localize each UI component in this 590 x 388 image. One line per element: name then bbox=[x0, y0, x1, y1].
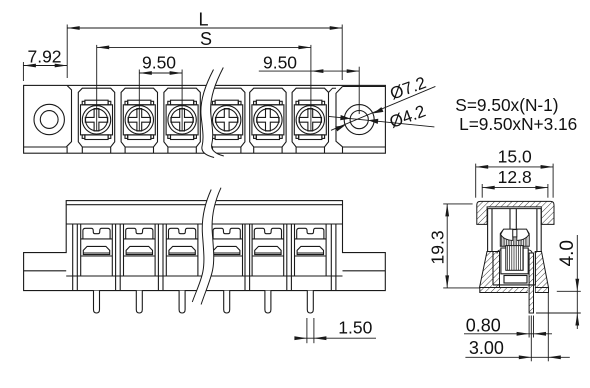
svg-text:Ø7.2: Ø7.2 bbox=[388, 73, 429, 103]
front view: cell window 2 bbox=[124, 224, 156, 276]
front view: cell window 3 bbox=[166, 224, 198, 276]
dimension S bbox=[97, 45, 311, 131]
top view: break lines bbox=[201, 68, 224, 158]
dimension 4.0 bbox=[536, 235, 581, 329]
side view: pin (hatched) bbox=[528, 253, 535, 313]
svg-text:S=9.50x(N-1): S=9.50x(N-1) bbox=[455, 95, 558, 115]
svg-text:15.0: 15.0 bbox=[498, 146, 532, 166]
leader diameter 7.2 bbox=[331, 86, 435, 130]
svg-text:3.00: 3.00 bbox=[469, 338, 504, 358]
dimension 9.50 right bbox=[259, 67, 359, 114]
svg-text:S: S bbox=[200, 29, 212, 49]
top view: terminal cell 2 bbox=[121, 88, 157, 153]
dimension 15.0 bbox=[476, 164, 553, 198]
side view: cap (hatched) bbox=[477, 201, 554, 224]
dimension 19.3 bbox=[443, 204, 480, 288]
side view: lower wedges (hatched) bbox=[480, 252, 549, 293]
top view: terminal cell 1 bbox=[78, 88, 114, 153]
dimension 9.50 left bbox=[139, 70, 182, 132]
front view: pins bbox=[94, 291, 314, 313]
svg-text:12.8: 12.8 bbox=[498, 167, 532, 187]
front view: cell window 1 bbox=[81, 224, 113, 276]
top view: strip outline bbox=[24, 85, 386, 153]
side view: screw head bbox=[500, 229, 529, 246]
front view: partition walls bbox=[73, 224, 336, 291]
top view: groove channel right of cell 6 bbox=[329, 88, 337, 92]
front view: cell window 6 bbox=[295, 224, 327, 276]
front view: break lines bbox=[192, 188, 221, 305]
side view: clamp frame bbox=[497, 248, 532, 274]
side view: screw knurl bbox=[501, 234, 527, 246]
side view: body walls bbox=[488, 209, 542, 252]
dimension 12.8 bbox=[482, 184, 548, 198]
svg-text:1.50: 1.50 bbox=[338, 318, 372, 338]
top view: terminal cell 6 bbox=[292, 88, 328, 153]
svg-text:4.0: 4.0 bbox=[557, 240, 578, 266]
dimension 7.92 bbox=[23, 62, 67, 81]
dimension 1.50 bbox=[296, 318, 377, 343]
top view: terminal cell 3 bbox=[164, 88, 200, 153]
front view: body outline bbox=[24, 201, 386, 291]
top view: terminal cell 5 bbox=[250, 88, 286, 153]
dimension L bbox=[67, 25, 342, 81]
svg-text:L=9.50xN+3.16: L=9.50xN+3.16 bbox=[459, 114, 577, 134]
side view: cavity bbox=[493, 252, 535, 285]
svg-text:7.92: 7.92 bbox=[27, 47, 61, 67]
top view: end block with mounting hole bbox=[336, 87, 385, 154]
svg-text:9.50: 9.50 bbox=[263, 53, 297, 73]
top view: ear block left bbox=[34, 85, 72, 153]
svg-text:19.3: 19.3 bbox=[428, 230, 448, 264]
front view: cell window 4 bbox=[211, 224, 243, 276]
front view: cell window 5 bbox=[252, 224, 284, 276]
leader diameter 4.2 bbox=[329, 116, 435, 127]
svg-text:9.50: 9.50 bbox=[142, 53, 176, 73]
svg-text:0.80: 0.80 bbox=[466, 316, 501, 336]
top view: terminal cell 4 bbox=[209, 88, 245, 153]
dimension 0.80 bbox=[464, 316, 552, 362]
svg-text:Ø4.2: Ø4.2 bbox=[387, 101, 428, 131]
side view: screw shaft threads bbox=[506, 246, 523, 271]
dimension 3.00 bbox=[465, 293, 569, 361]
svg-text:L: L bbox=[198, 10, 208, 30]
